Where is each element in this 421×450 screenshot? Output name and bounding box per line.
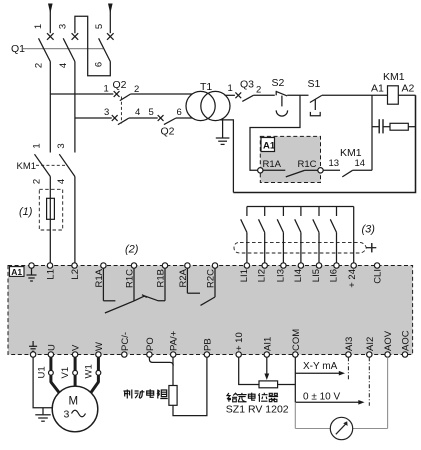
svg-text:+ 10: + 10	[234, 332, 245, 351]
svg-text:KM1: KM1	[383, 71, 405, 83]
svg-text:X-Y mA: X-Y mA	[303, 361, 338, 372]
transformer T1 secondary winding	[201, 91, 230, 120]
svg-text:LI2: LI2	[257, 269, 268, 282]
relay R2 contact	[187, 268, 215, 305]
wire junction drop to R1A	[250, 95, 300, 170]
svg-text:4: 4	[56, 179, 67, 184]
svg-text:R1C: R1C	[298, 159, 317, 170]
svg-text:AI3: AI3	[344, 337, 355, 351]
svg-text:AOV: AOV	[383, 330, 394, 351]
svg-text:PO: PO	[145, 337, 156, 351]
breaker Q1 pole blade 1-2	[39, 38, 51, 61]
terminal circle earth bottom	[30, 352, 35, 357]
wire phase A vertical Q1 to KM1	[49, 62, 51, 153]
svg-text:U1: U1	[37, 366, 48, 378]
contactor KM1 pole 1-2 blade	[35, 154, 51, 176]
terminal circle LI1	[244, 263, 249, 268]
svg-text:COM: COM	[291, 329, 302, 351]
terminal circle LI5	[316, 263, 321, 268]
wire phase B vertical Q1 to KM1	[74, 62, 76, 153]
earth wire from drive to motor	[33, 357, 52, 408]
terminal circle R1A	[101, 263, 106, 268]
signal arrow X-Y mA into AI3	[295, 371, 345, 376]
svg-text:A1: A1	[263, 141, 276, 152]
logic input common bus	[247, 206, 354, 208]
terminal circle AOC	[402, 352, 407, 357]
terminal circle W	[96, 352, 101, 357]
breaker Q3 cross	[235, 92, 241, 98]
relay contact R1A-R1C	[263, 170, 318, 177]
wire Q2 pole4 to pole5	[129, 117, 158, 119]
terminal circle LI6	[334, 263, 339, 268]
potentiometer label (Chinese)	[227, 393, 278, 402]
wire Q2 to T1 primary top	[131, 93, 193, 95]
breaker Q1 pole blade 5-6	[99, 38, 111, 61]
svg-text:(1): (1)	[19, 206, 33, 218]
svg-text:+ 24: + 24	[347, 269, 358, 288]
terminal circle PC/-	[122, 352, 127, 357]
contactor KM1 mechanical link dashed	[36, 164, 66, 166]
svg-text:1: 1	[33, 24, 44, 29]
svg-text:Q2: Q2	[113, 79, 127, 91]
terminal circle AI2	[367, 352, 372, 357]
svg-text:PC/-: PC/-	[120, 332, 131, 351]
motor wire W	[91, 357, 99, 393]
wire T1 secondary to Q3	[225, 94, 235, 96]
braking resistor body	[169, 386, 177, 406]
svg-text:AI2: AI2	[365, 337, 376, 351]
svg-text:LI4: LI4	[293, 269, 304, 282]
svg-text:2: 2	[256, 85, 261, 96]
pushbutton S1 NO contact	[310, 95, 322, 110]
switch Q2 pole 1-2 blade	[120, 94, 131, 101]
svg-text:SZ1 RV 1202: SZ1 RV 1202	[226, 403, 289, 415]
cable clamp terminator	[366, 243, 376, 252]
motor terminal circle U1	[49, 370, 54, 375]
signal arrow 0 +/- 10V into AI2	[295, 400, 364, 405]
svg-text:L1: L1	[46, 269, 57, 280]
terminal circle L2	[72, 263, 77, 268]
svg-text:3: 3	[56, 143, 67, 148]
terminal circle PB	[204, 352, 209, 357]
svg-text:2: 2	[134, 84, 139, 95]
svg-text:M: M	[69, 396, 79, 408]
terminal circle LI3	[281, 263, 286, 268]
svg-text:U: U	[46, 344, 57, 351]
wire tap to Q2 bottom	[75, 117, 112, 119]
breaker Q1 terminal cross 1	[47, 33, 54, 40]
earth ground symbol motor	[35, 408, 50, 421]
wire KM1 to drive L1	[49, 177, 51, 263]
svg-text:R1A: R1A	[263, 159, 282, 170]
svg-text:A1: A1	[371, 83, 384, 95]
terminal circle R2A	[185, 263, 190, 268]
fuse F1 body	[47, 198, 55, 219]
bottom terminal label earth	[29, 341, 37, 351]
potentiometer wiper arrow from AI1	[264, 357, 269, 380]
wire PA/+ to braking resistor	[172, 357, 174, 385]
wire coil A2 to right rail	[398, 94, 415, 96]
relay R1 changeover contact	[103, 268, 165, 313]
breaker Q1 terminal cross 3	[72, 33, 79, 40]
transformer T1 primary winding	[186, 91, 215, 120]
braking resistor label (Chinese)	[124, 389, 168, 398]
terminal circle COM	[293, 352, 298, 357]
wire AOV down to meter	[353, 357, 388, 428]
logic switch LI3	[277, 207, 283, 263]
wire potentiometer to COM	[278, 384, 296, 386]
motor wire V	[74, 357, 77, 386]
svg-text:CLI: CLI	[372, 269, 383, 284]
snubber capacitor	[372, 119, 390, 133]
control circuit bottom rail	[233, 95, 415, 192]
terminal circle CLI	[374, 263, 379, 268]
terminal circle AI1	[264, 352, 269, 357]
svg-text:3: 3	[104, 107, 109, 118]
terminal circle PA/+	[171, 352, 176, 357]
switch Q2 pole 3-4 cross	[112, 115, 118, 121]
motor wire U	[51, 357, 59, 393]
svg-text:(2): (2)	[125, 244, 139, 256]
phantom wire AI3	[347, 357, 349, 379]
wire COM down to meter	[295, 357, 330, 428]
snubber resistor	[390, 123, 408, 130]
svg-text:5: 5	[149, 107, 154, 118]
potentiometer body	[259, 381, 278, 388]
terminal circle V	[72, 352, 77, 357]
logic switch LI2	[259, 207, 265, 263]
logic switch LI5	[313, 207, 319, 263]
breaker Q1 terminal cross 5	[107, 33, 114, 40]
svg-text:Q3: Q3	[240, 79, 254, 91]
contactor KM1 pole 3-4 blade	[59, 154, 75, 176]
terminal circle earth	[29, 263, 34, 268]
ground stub T1	[222, 119, 224, 138]
logic switch LI1	[241, 207, 247, 263]
wire snubber to right rail	[408, 126, 415, 128]
drive name A1 box	[10, 267, 25, 277]
svg-text:14: 14	[355, 158, 366, 169]
logic switch LI4	[295, 207, 301, 263]
pushbutton S2 NC contact	[276, 91, 287, 107]
switch Q2 pole 5-6 blade	[164, 118, 176, 125]
terminal circle +10	[236, 352, 241, 357]
wire Q2 to T1 primary bottom	[176, 117, 193, 119]
cable clamp dashed capsule	[234, 242, 366, 253]
svg-text:(3): (3)	[362, 224, 376, 236]
svg-text:3: 3	[58, 24, 69, 29]
svg-text:6: 6	[94, 62, 105, 67]
phantom wire AI2	[368, 357, 370, 406]
svg-text:6: 6	[177, 107, 182, 118]
meter P1	[330, 417, 352, 439]
svg-text:1: 1	[32, 143, 43, 148]
earth ground symbol T1	[216, 138, 230, 144]
supply arrow line 1	[48, 4, 53, 34]
switch Q2 pole 1-2 cross	[114, 91, 120, 97]
svg-text:3: 3	[64, 409, 70, 421]
motor terminal circle W1	[96, 370, 101, 375]
drive internal relay dashed grey box	[260, 136, 320, 182]
terminal circle +24	[351, 263, 356, 268]
terminal circle L1	[47, 263, 52, 268]
svg-text:5: 5	[94, 24, 105, 29]
svg-text:2: 2	[32, 179, 43, 184]
svg-text:AI1: AI1	[262, 337, 273, 351]
contactor KM1 aux contact 13-14	[323, 170, 372, 177]
svg-text:A1: A1	[11, 267, 22, 277]
terminal circle AI3	[346, 352, 351, 357]
drive A1 body grey box	[8, 266, 413, 355]
logic switch LI6	[330, 207, 336, 263]
supply arrow line 5	[108, 4, 113, 34]
svg-text:AOC: AOC	[401, 330, 412, 351]
svg-text:S1: S1	[308, 78, 321, 90]
svg-text:0 ± 10 V: 0 ± 10 V	[303, 392, 341, 403]
svg-text:V: V	[71, 344, 82, 351]
svg-text:W: W	[94, 342, 105, 351]
svg-text:LI5: LI5	[311, 269, 322, 282]
svg-text:PB: PB	[202, 338, 213, 351]
pushbutton S1 actuator	[310, 112, 320, 116]
fuse dashed box	[39, 189, 62, 230]
wire loop terminal 3 to terminal 6	[75, 16, 110, 76]
svg-text:S2: S2	[272, 77, 285, 89]
drive earth terminal symbol	[27, 268, 37, 281]
svg-text:Q2: Q2	[161, 126, 175, 138]
terminal circle LI2	[262, 263, 267, 268]
wire T1 secondary bottom corner	[220, 120, 234, 193]
jumper PO to PA/+	[149, 357, 173, 365]
motor label 3 phase	[64, 409, 86, 421]
motor terminal circle V1	[73, 370, 78, 375]
svg-text:LI6: LI6	[329, 269, 340, 282]
terminal circle R1C	[131, 263, 136, 268]
wire braking resistor to PB	[173, 357, 207, 415]
drive label A1 box	[261, 138, 276, 152]
wire +10 to potentiometer	[239, 357, 259, 384]
svg-text:4: 4	[58, 63, 69, 68]
svg-text:LI3: LI3	[275, 269, 286, 282]
svg-text:W1: W1	[84, 364, 95, 378]
wire Q3 to S2	[253, 94, 274, 96]
svg-text:L2: L2	[70, 269, 81, 280]
switch Q2 pole 3-4 blade	[118, 118, 129, 125]
terminal circle R1A	[258, 168, 263, 173]
svg-text:LI1: LI1	[239, 269, 250, 282]
breaker Q3 blade	[242, 95, 253, 101]
terminal circle R2C	[212, 263, 217, 268]
switch Q2 pole 5-6 cross	[158, 115, 164, 121]
svg-text:13: 13	[329, 158, 340, 169]
terminal circle R1C	[318, 168, 323, 173]
svg-text:1: 1	[104, 84, 109, 95]
breaker Q1 mechanical link	[23, 48, 103, 50]
wire tap to Q2 top	[50, 93, 113, 95]
wire KM1 to drive L2	[74, 177, 76, 263]
motor M1 circle	[52, 386, 98, 432]
svg-text:KM1: KM1	[17, 161, 37, 172]
svg-text:V1: V1	[60, 367, 71, 379]
wire S1 to KM1 coil	[322, 94, 388, 96]
wire S2 to S1	[287, 94, 308, 96]
terminal circle U	[48, 352, 53, 357]
terminal circle PO	[147, 352, 152, 357]
terminal circle AOV	[385, 352, 390, 357]
wire +24 vertical	[353, 207, 355, 263]
pushbutton S2 mushroom head	[276, 110, 287, 116]
terminal circle R1B	[162, 263, 167, 268]
switch Q2 mechanical link dashed	[120, 97, 122, 124]
svg-text:2: 2	[34, 63, 45, 68]
contactor KM1 coil	[388, 86, 399, 104]
svg-text:PA/+: PA/+	[169, 330, 180, 351]
svg-text:A2: A2	[402, 83, 415, 95]
svg-text:1: 1	[228, 83, 233, 94]
svg-text:4: 4	[135, 107, 140, 118]
wire KM1 aux to coil junction	[371, 95, 373, 170]
breaker Q1 pole blade 3-4	[63, 38, 75, 61]
terminal circle LI4	[298, 263, 303, 268]
